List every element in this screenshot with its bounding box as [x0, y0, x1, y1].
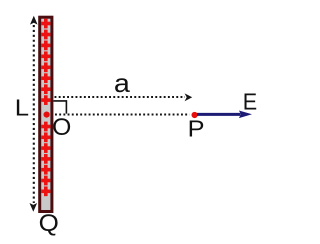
svg-text:P: P: [188, 116, 205, 142]
svg-text:a: a: [114, 68, 131, 98]
svg-text:L: L: [15, 95, 30, 121]
svg-text:E: E: [243, 89, 257, 115]
svg-text:O: O: [52, 114, 71, 141]
svg-text:Q: Q: [39, 210, 59, 237]
